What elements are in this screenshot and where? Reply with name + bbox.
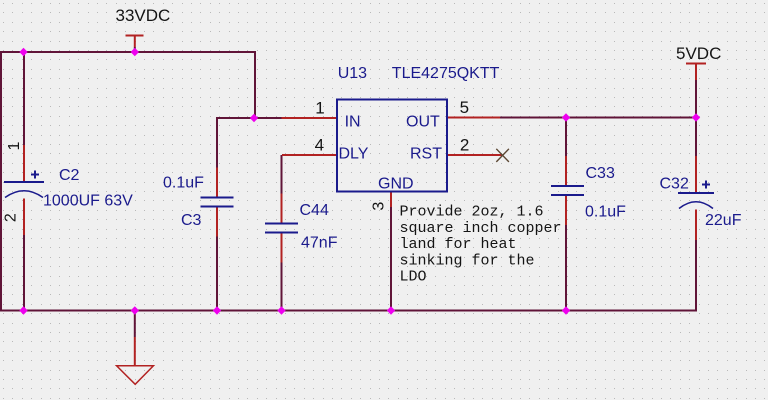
svg-text:sinking for the: sinking for the — [400, 252, 535, 269]
svg-text:land for heat: land for heat — [400, 236, 517, 253]
svg-text:C33: C33 — [586, 165, 615, 182]
svg-text:Provide 2oz, 1.6: Provide 2oz, 1.6 — [400, 204, 544, 221]
svg-text:GND: GND — [378, 176, 414, 193]
svg-text:2: 2 — [3, 213, 20, 222]
svg-text:OUT: OUT — [406, 114, 440, 131]
svg-text:C3: C3 — [181, 212, 202, 229]
svg-text:LDO: LDO — [400, 269, 427, 286]
svg-text:IN: IN — [345, 114, 361, 131]
svg-text:square inch copper: square inch copper — [400, 220, 562, 237]
svg-text:1000UF 63V: 1000UF 63V — [43, 193, 133, 210]
svg-text:2: 2 — [460, 136, 469, 155]
svg-text:5VDC: 5VDC — [676, 44, 721, 63]
svg-text:1: 1 — [315, 99, 324, 118]
svg-text:33VDC: 33VDC — [116, 6, 171, 25]
svg-text:0.1uF: 0.1uF — [163, 175, 204, 192]
svg-text:U13: U13 — [338, 65, 367, 82]
svg-text:DLY: DLY — [339, 145, 369, 162]
svg-text:1: 1 — [6, 141, 23, 150]
svg-text:C32: C32 — [660, 176, 689, 193]
svg-text:47nF: 47nF — [301, 235, 338, 252]
svg-text:4: 4 — [315, 136, 324, 155]
svg-text:3: 3 — [371, 202, 388, 211]
svg-text:RST: RST — [410, 145, 442, 162]
svg-text:5: 5 — [460, 98, 469, 117]
svg-text:TLE4275QKTT: TLE4275QKTT — [392, 65, 500, 82]
svg-text:0.1uF: 0.1uF — [585, 204, 626, 221]
svg-text:C44: C44 — [300, 202, 329, 219]
svg-text:C2: C2 — [59, 167, 80, 184]
svg-text:22uF: 22uF — [705, 212, 742, 229]
